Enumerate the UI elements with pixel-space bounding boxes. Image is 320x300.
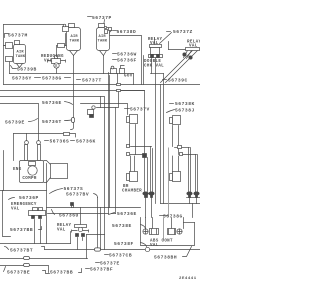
svg-text:56738G: 56738G — [163, 214, 183, 220]
svg-text:56737BF: 56737BF — [90, 267, 113, 273]
svg-text:CHK VAL: CHK VAL — [144, 65, 164, 69]
svg-text:VAL: VAL — [11, 208, 20, 212]
svg-text:AIR: AIR — [17, 51, 25, 55]
svg-text:56737P: 56737P — [92, 15, 112, 21]
svg-text:56738G: 56738G — [42, 76, 62, 82]
svg-text:56737E: 56737E — [100, 261, 120, 267]
svg-text:56739C: 56739C — [168, 78, 188, 84]
svg-text:56736Y: 56736Y — [12, 76, 32, 82]
svg-text:56736W: 56736W — [117, 52, 137, 58]
svg-text:56736F: 56736F — [117, 58, 137, 64]
svg-text:56737CB: 56737CB — [109, 253, 132, 259]
svg-text:56737BB: 56737BB — [50, 270, 73, 276]
svg-text:56739B: 56739B — [17, 67, 37, 73]
svg-text:CHAMBER: CHAMBER — [122, 190, 142, 194]
svg-text:56738J: 56738J — [175, 108, 195, 114]
svg-text:56736T: 56736T — [42, 119, 62, 125]
svg-text:BR: BR — [123, 185, 129, 189]
svg-text:COMPR: COMPR — [22, 177, 36, 181]
svg-text:VAL: VAL — [44, 60, 53, 64]
svg-text:56738BH: 56738BH — [154, 255, 177, 261]
svg-text:56737BV: 56737BV — [66, 192, 89, 198]
svg-text:GOV: GOV — [124, 75, 133, 79]
svg-text:56737V: 56737V — [130, 107, 150, 113]
svg-text:56737BB: 56737BB — [10, 227, 33, 233]
svg-text:VAL: VAL — [150, 244, 159, 248]
svg-text:VAL: VAL — [57, 228, 66, 232]
svg-text:VAL: VAL — [150, 42, 159, 46]
svg-text:56737M: 56737M — [8, 33, 28, 39]
svg-text:56738E: 56738E — [112, 223, 132, 229]
svg-text:56737S: 56737S — [64, 186, 84, 192]
svg-text:TANK: TANK — [70, 40, 80, 44]
svg-text:56737Z: 56737Z — [173, 29, 193, 35]
svg-text:TANK: TANK — [98, 40, 108, 44]
svg-text:56738K: 56738K — [175, 101, 195, 107]
svg-text:56736E: 56736E — [42, 100, 62, 106]
svg-text:AIR: AIR — [71, 35, 79, 39]
svg-text:56736U: 56736U — [59, 213, 79, 219]
svg-text:2E4441: 2E4441 — [179, 277, 197, 281]
svg-text:DOUBLE: DOUBLE — [144, 60, 161, 64]
svg-text:56736P: 56736P — [19, 195, 39, 201]
svg-text:56737BE: 56737BE — [7, 270, 30, 276]
svg-text:56736E: 56736E — [117, 211, 137, 217]
svg-text:AIR: AIR — [99, 35, 107, 39]
svg-text:ENG: ENG — [13, 168, 22, 172]
svg-text:VAL: VAL — [189, 45, 198, 49]
svg-text:TANK: TANK — [16, 55, 26, 59]
svg-text:ABS CONT: ABS CONT — [150, 240, 173, 244]
svg-text:56739E: 56739E — [5, 120, 25, 126]
svg-text:REDUCING: REDUCING — [41, 55, 64, 59]
svg-text:EMERGENCY: EMERGENCY — [11, 203, 37, 207]
svg-text:56736S: 56736S — [50, 139, 70, 145]
svg-text:56737T: 56737T — [82, 78, 102, 84]
svg-text:56738D: 56738D — [117, 29, 137, 35]
svg-text:56738F: 56738F — [114, 241, 134, 247]
svg-text:56736K: 56736K — [76, 139, 96, 145]
svg-text:56737BT: 56737BT — [10, 248, 33, 254]
